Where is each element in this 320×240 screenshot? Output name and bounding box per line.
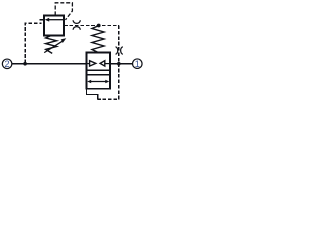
valve V2 seat right (closed check)	[100, 61, 110, 66]
wire solid drain staircase under valve V2	[87, 89, 98, 100]
junction dot right	[117, 62, 121, 66]
valve V2 two-position body	[87, 53, 111, 89]
wire main line left (port 2 to valve)	[12, 63, 86, 65]
valve V2 seat left (closed check)	[87, 61, 96, 66]
adjustment arrow of valve V1	[44, 38, 66, 52]
spring of valve V1	[46, 36, 57, 54]
node port 1 circle	[133, 59, 143, 69]
wire pilot dashed vertical right with drain return	[98, 26, 119, 100]
orifice restriction on horizontal pilot line	[73, 20, 80, 29]
valve V2 position divider lower	[87, 74, 111, 76]
wire solid stub into valve left	[40, 19, 44, 21]
svg-text:1: 1	[135, 59, 140, 69]
orifice restriction on vertical pilot line	[116, 47, 123, 54]
spring of valve V2 (right spring)	[92, 26, 104, 53]
junction dot left	[23, 62, 27, 66]
wire main line right (valve to port 1)	[110, 63, 132, 65]
wire pilot dashed left riser	[25, 23, 41, 63]
valve V1 flow arrow	[45, 18, 64, 22]
wire pilot dashed horizontal to right network	[64, 25, 119, 27]
junction dot on pilot line	[97, 24, 101, 28]
valve V2 double flow arrow	[87, 80, 109, 84]
svg-text:2: 2	[5, 59, 10, 69]
wire pilot dashed loop over valve V1	[55, 3, 72, 20]
valve V1 pressure reducing box	[44, 16, 64, 36]
valve V2 position divider upper	[87, 69, 111, 71]
node port 2 circle	[2, 59, 12, 69]
